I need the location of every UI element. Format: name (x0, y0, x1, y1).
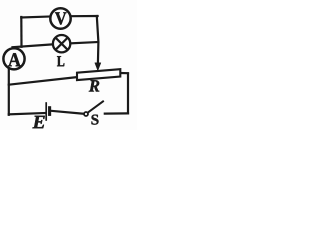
battery E long plate (45, 102, 47, 121)
ammeter A (3, 48, 24, 69)
wire wiper vertical (corner down to rheostat arrow) (97, 16, 99, 64)
switch label S (92, 115, 99, 125)
wire left vertical (ammeter bottom to bottom-left corner) (8, 68, 10, 115)
wire battery to switch (51, 111, 84, 114)
voltmeter V (50, 8, 70, 28)
rheostat wiper arrowhead (95, 63, 101, 71)
wire lamp row right (lamp to wiper junction) (70, 42, 98, 43)
lamp label L (57, 56, 64, 66)
wire voltmeter branch vertical (20, 17, 22, 47)
wire bottom (corner to battery) (9, 113, 46, 114)
wire rheostat right stub (120, 72, 128, 74)
switch S lever (88, 101, 104, 113)
battery E short thick plate (48, 106, 51, 116)
switch S pivot terminal (84, 112, 88, 116)
rheostat R box (77, 69, 120, 80)
wire top right (voltmeter to top-right corner) (71, 15, 98, 17)
wire right vertical (corner up to rheostat right) (127, 73, 129, 113)
lamp L (53, 35, 70, 52)
wire top left (junction to voltmeter) (21, 17, 50, 18)
rheostat label R (89, 80, 100, 91)
wire to rheostat left terminal (9, 77, 78, 85)
wire switch to bottom-right corner (105, 112, 128, 114)
battery label E (32, 116, 44, 128)
wire lamp row left (ammeter top to lamp) (13, 44, 54, 47)
